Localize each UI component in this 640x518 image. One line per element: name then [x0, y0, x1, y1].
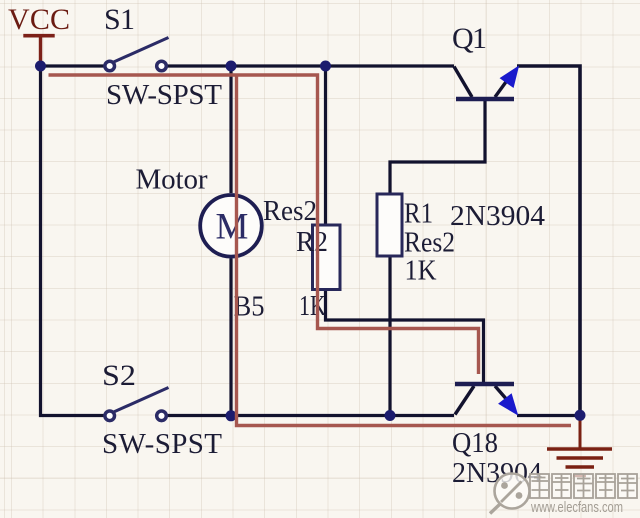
- svg-text:2N3904: 2N3904: [450, 200, 545, 232]
- watermark: [490, 474, 637, 517]
- switch S1: [105, 38, 169, 71]
- wire: [390, 100, 485, 194]
- svg-text:www.elecfans.com: www.elecfans.com: [530, 499, 623, 516]
- svg-text:VCC: VCC: [8, 3, 70, 36]
- svg-text:R1: R1: [404, 198, 433, 230]
- wire: [167, 414, 454, 417]
- transistor Q18: [455, 384, 517, 415]
- svg-text:Q1: Q1: [452, 22, 487, 55]
- wire: [517, 414, 580, 417]
- resistor R1: [377, 194, 402, 256]
- svg-text:Motor: Motor: [136, 164, 208, 196]
- junction dot: [35, 61, 46, 72]
- wire highlight red path: [49, 75, 479, 374]
- junction dot: [575, 410, 586, 421]
- wire: [324, 66, 327, 225]
- junction dot: [226, 61, 237, 72]
- transistor Q1: [454, 67, 518, 100]
- svg-text:S2: S2: [102, 359, 136, 392]
- wire: [229, 259, 232, 416]
- junction dot: [385, 410, 396, 421]
- ground: [547, 415, 612, 476]
- svg-text:M: M: [216, 207, 249, 248]
- resistor R2: [313, 225, 341, 290]
- junction dot: [226, 410, 237, 421]
- svg-text:S1: S1: [104, 3, 135, 36]
- wire: [167, 64, 454, 67]
- svg-text:SW-SPST: SW-SPST: [106, 79, 222, 111]
- wire: [517, 66, 580, 416]
- power symbol VCC: [23, 36, 54, 64]
- wire: [388, 256, 391, 416]
- wire: [326, 290, 484, 384]
- switch S2: [105, 388, 169, 421]
- svg-text:Res2: Res2: [263, 195, 317, 227]
- svg-text:R2: R2: [296, 226, 328, 258]
- svg-text:1K: 1K: [299, 290, 326, 322]
- svg-text:1K: 1K: [405, 255, 437, 287]
- wire highlight red path: [237, 75, 572, 426]
- junction dot: [320, 61, 331, 72]
- wire: [41, 66, 105, 416]
- motor B5: [200, 195, 262, 257]
- wire: [229, 66, 232, 193]
- svg-text:SW-SPST: SW-SPST: [102, 428, 222, 460]
- svg-text:Q18: Q18: [452, 427, 498, 459]
- wire: [41, 64, 105, 67]
